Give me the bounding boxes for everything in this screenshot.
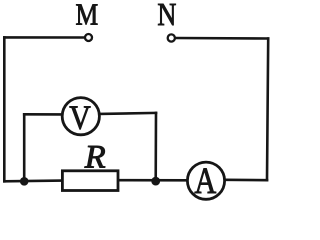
terminal N circle [168, 34, 175, 41]
wire top-left horizontal [4, 36, 84, 39]
svg-text:N: N [157, 0, 176, 33]
wire bottom-left segment [4, 179, 61, 182]
node junction dot left [20, 177, 29, 186]
terminal M circle [85, 34, 92, 41]
node junction dot right [151, 177, 160, 186]
ammeter U-A circle [187, 162, 224, 199]
wire right vertical [267, 39, 268, 181]
svg-text:A: A [194, 161, 216, 202]
svg-text:M: M [75, 0, 98, 32]
voltmeter U-V circle [62, 98, 99, 135]
wire voltmeter-branch top-left horizontal [24, 113, 61, 116]
svg-text:V: V [69, 99, 91, 136]
wire resistor-to-ammeter segment [119, 179, 186, 182]
svg-text:R: R [84, 139, 106, 175]
wire ammeter-to-right segment [226, 179, 268, 182]
wire voltmeter-branch top-right horizontal [100, 113, 156, 114]
wire voltmeter-branch right vertical [154, 113, 157, 181]
wire voltmeter-branch left vertical [23, 114, 26, 181]
resistor R1 box [62, 171, 118, 191]
wire left vertical [3, 37, 6, 181]
wire top-right horizontal [176, 37, 268, 40]
